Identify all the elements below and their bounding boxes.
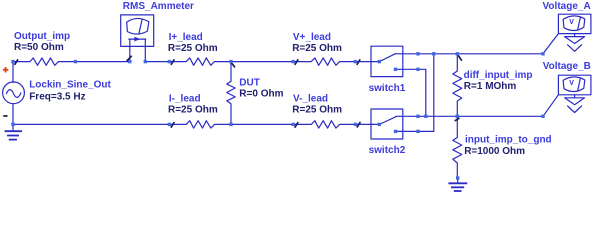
Voltage_A ground chevron bbox=[568, 45, 582, 52]
plus polarity mark source bbox=[3, 69, 8, 71]
node source bottom corner bbox=[11, 123, 14, 126]
svg-text:diff_input_imp: diff_input_imp bbox=[464, 70, 533, 81]
ammeter arrowhead bbox=[134, 37, 140, 42]
node switch2 pivot bbox=[378, 123, 381, 126]
svg-text:V+_lead: V+_lead bbox=[293, 32, 331, 43]
node input_imp_to_gnd pin 2 bbox=[456, 176, 459, 179]
node switch1 lower contact bbox=[394, 68, 397, 71]
wire source bottom to ground corner bbox=[12, 104, 14, 125]
pin tick V+_lead pin 1 bbox=[295, 60, 298, 64]
wire Voltage_A probe diagonal bbox=[543, 34, 558, 54]
resistor input_imp_to_gnd vertical bbox=[453, 116, 462, 178]
pin tick switch1 input bbox=[357, 60, 360, 64]
svg-text:Lockin_Sine_Out: Lockin_Sine_Out bbox=[29, 80, 111, 91]
svg-text:R=25 Ohm: R=25 Ohm bbox=[292, 105, 342, 116]
svg-text:R=25 Ohm: R=25 Ohm bbox=[168, 105, 218, 116]
Voltage_A ground stem bbox=[574, 34, 576, 37]
voltmeter Voltage_A fan bbox=[563, 16, 585, 31]
wire Output_imp to ammeter left lead bbox=[59, 61, 130, 63]
node switch1 lower throw vertex bbox=[416, 68, 419, 71]
wire ammeter to I+_lead bbox=[145, 61, 169, 63]
ground under source bar 2 bbox=[7, 135, 19, 137]
node V-_lead pin 1 bbox=[292, 123, 295, 126]
wire bottom net source to I-_lead bbox=[13, 123, 169, 125]
ammeter left lead bbox=[129, 39, 131, 62]
Voltage_A ground triangle bbox=[565, 37, 585, 44]
node top rail probe end bbox=[541, 52, 544, 55]
resistor V-_lead bbox=[293, 121, 355, 128]
ground under source bar 3 bbox=[9, 139, 17, 141]
pin tick switch2 input bbox=[357, 123, 360, 127]
svg-text:V-_lead: V-_lead bbox=[293, 94, 328, 105]
ground under source bar 1 bbox=[5, 130, 22, 132]
switch1 blade bbox=[379, 54, 395, 62]
ammeter meter needle bbox=[139, 19, 142, 33]
pin tick V-_lead pin 1 bbox=[295, 123, 298, 127]
svg-text:V: V bbox=[569, 19, 574, 26]
switch2 blade bbox=[379, 117, 395, 125]
svg-text:switch2: switch2 bbox=[369, 145, 406, 156]
node switch2 input pin bbox=[354, 123, 357, 126]
Voltage_B ground chevron bbox=[568, 106, 582, 113]
node switch1 input pin bbox=[354, 60, 357, 63]
resistor I-_lead bbox=[169, 121, 231, 128]
wire V-_lead into switch2 bbox=[356, 123, 380, 125]
wire switch1 lower throw down to bottom rail bbox=[396, 69, 426, 116]
voltmeter Voltage_A box bbox=[558, 14, 591, 33]
pin tick I+_lead pin 1 bbox=[171, 60, 174, 64]
svg-text:I-_lead: I-_lead bbox=[169, 94, 201, 105]
svg-text:input_imp_to_gnd: input_imp_to_gnd bbox=[465, 135, 552, 146]
svg-text:R=25 Ohm: R=25 Ohm bbox=[292, 43, 342, 54]
resistor diff_input_imp vertical bbox=[453, 54, 462, 117]
node bottom rail vertex bbox=[416, 115, 419, 118]
ammeter right lead bbox=[144, 39, 146, 62]
voltmeter Voltage_A needle bbox=[578, 18, 581, 30]
wire bottom rail switch2 to Voltage_B probe bbox=[396, 115, 543, 117]
pin tick DUT top bbox=[232, 64, 235, 67]
source sine wave glyph bbox=[6, 90, 21, 98]
resistor V+_lead bbox=[293, 58, 355, 65]
resistor I+_lead bbox=[169, 58, 231, 65]
wire node V- : I-_lead to V-_lead bbox=[231, 123, 293, 125]
junction DUT top bbox=[229, 60, 232, 63]
svg-text:Freq=3.5 Hz: Freq=3.5 Hz bbox=[29, 91, 85, 102]
pin tick source top bbox=[15, 60, 18, 64]
svg-text:DUT: DUT bbox=[239, 78, 260, 89]
pin tick input_imp_to_gnd top bbox=[455, 118, 459, 120]
ammeter internal arrow line bbox=[129, 38, 146, 40]
node top rail vertex bbox=[416, 52, 419, 55]
ammeter meter fan bbox=[127, 18, 149, 34]
node Output_imp pin 2 bbox=[74, 60, 77, 63]
ground bottom right bar 1 bbox=[448, 182, 467, 184]
wire switch2 lower throw up to top rail bbox=[396, 54, 434, 132]
svg-text:Voltage_A: Voltage_A bbox=[543, 1, 591, 12]
svg-text:Voltage_B: Voltage_B bbox=[543, 61, 591, 72]
svg-text:I+_lead: I+_lead bbox=[169, 32, 203, 43]
junction top rail x diff_input_imp bbox=[456, 52, 459, 55]
voltmeter Voltage_B box bbox=[558, 75, 591, 95]
svg-text:R=1 MOhm: R=1 MOhm bbox=[464, 81, 517, 92]
node V+_lead pin 1 bbox=[292, 60, 295, 63]
ground stub below source bbox=[12, 124, 14, 130]
minus polarity mark source bbox=[3, 115, 7, 117]
ammeter RMS_Ammeter box bbox=[121, 15, 154, 47]
switch1 box bbox=[371, 46, 403, 76]
wire top rail switch1 to Voltage_A probe bbox=[396, 53, 543, 55]
node switch2 lower throw vertex bbox=[416, 130, 419, 133]
Voltage_B ground stem bbox=[574, 95, 576, 98]
ground bottom right bar 3 bbox=[454, 190, 462, 192]
node I+_lead pin 1 bbox=[168, 60, 171, 63]
pin tick ammeter left lead bbox=[127, 56, 131, 60]
wire source top to Output_imp bbox=[13, 62, 30, 83]
junction top rail x swap wire bbox=[432, 52, 435, 55]
svg-text:R=0 Ohm: R=0 Ohm bbox=[239, 89, 283, 100]
svg-text:V: V bbox=[569, 80, 574, 87]
source SRC1 Lockin_Sine_Out circle bbox=[3, 82, 25, 104]
junction bottom rail x switch1 throw wire bbox=[424, 115, 427, 118]
junction DUT bottom bbox=[229, 123, 232, 126]
node switch2 lower contact bbox=[394, 130, 397, 133]
node switch1 pivot bbox=[378, 60, 381, 63]
node I-_lead pin 1 bbox=[168, 123, 171, 126]
switch2 box bbox=[371, 109, 403, 139]
svg-text:Output_imp: Output_imp bbox=[14, 31, 70, 42]
wire node V+ : I+_lead to V+_lead bbox=[231, 61, 293, 63]
svg-text:R=1000 Ohm: R=1000 Ohm bbox=[464, 146, 525, 157]
node bottom rail probe end bbox=[541, 115, 544, 118]
ground bottom right bar 2 bbox=[451, 186, 464, 188]
ground stub bottom right bbox=[457, 178, 459, 183]
resistor Output_imp zigzag bbox=[30, 58, 59, 65]
voltmeter Voltage_B fan bbox=[563, 77, 585, 92]
svg-text:RMS_Ammeter: RMS_Ammeter bbox=[123, 1, 194, 12]
junction bottom rail x input_imp_to_gnd bbox=[456, 115, 459, 118]
node ammeter pin 2 bbox=[144, 60, 147, 63]
node source top corner bbox=[11, 60, 14, 63]
wire V+_lead into switch1 bbox=[355, 61, 379, 63]
svg-text:R=25 Ohm: R=25 Ohm bbox=[168, 43, 218, 54]
pin tick I-_lead pin 1 bbox=[171, 123, 174, 127]
Voltage_B ground triangle bbox=[565, 98, 585, 105]
wire Voltage_B probe diagonal bbox=[543, 95, 558, 117]
pin tick diff_input_imp top bbox=[459, 56, 462, 60]
voltmeter Voltage_B needle bbox=[578, 79, 581, 91]
resistor DUT vertical bbox=[227, 62, 236, 125]
node ammeter pin 1 bbox=[128, 60, 131, 63]
svg-text:switch1: switch1 bbox=[369, 83, 406, 94]
svg-text:R=50 Ohm: R=50 Ohm bbox=[14, 42, 64, 53]
